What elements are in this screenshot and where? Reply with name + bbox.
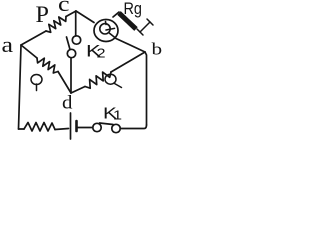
wire battery to key K1	[77, 127, 93, 129]
wire switch K2 to node d	[70, 58, 72, 93]
lead galvanometer to resistor Rg	[113, 12, 119, 17]
label Q right handwritten	[105, 74, 122, 87]
current I symbol bottom tick	[137, 29, 143, 35]
label Rg	[124, 0, 142, 18]
svg-text:2: 2	[97, 47, 106, 61]
rheostat resistor	[24, 123, 55, 132]
resistor P	[46, 17, 66, 33]
wire node a to resistor P	[21, 31, 46, 45]
label K1	[103, 104, 118, 122]
wire left side node a down	[19, 45, 22, 129]
galvanometer circle	[94, 20, 118, 42]
resistor Q left arm	[37, 58, 58, 73]
wire rheostat to battery	[55, 129, 69, 130]
switch K2 top contact	[72, 36, 80, 44]
svg-text:b: b	[152, 40, 163, 59]
svg-text:d: d	[62, 92, 72, 113]
wire node a to resistor Q (left)	[21, 45, 37, 58]
wire resistor P to node c	[66, 11, 76, 17]
wire node d to resistor Q (right)	[71, 87, 85, 94]
wire node c down to switch K2	[75, 11, 77, 36]
label c	[58, 0, 70, 16]
wire key K1 to bottom right corner	[121, 125, 147, 129]
svg-text:Rg: Rg	[124, 0, 142, 18]
svg-text:a: a	[2, 34, 14, 58]
svg-text:1: 1	[113, 109, 122, 123]
current I symbol top tick	[147, 19, 153, 25]
svg-text:c: c	[58, 0, 70, 16]
label K2	[86, 42, 101, 61]
label P	[36, 2, 49, 27]
resistor Q right arm	[85, 72, 111, 88]
battery long plate	[70, 113, 72, 139]
key K1 left contact	[93, 123, 101, 131]
galvanometer G glyph	[100, 22, 116, 39]
wire resistor Q left to node d	[58, 72, 71, 94]
wire bottom left	[19, 128, 25, 130]
label b	[152, 40, 163, 59]
switch K2 bottom contact	[67, 49, 75, 57]
key K1 bar	[100, 123, 114, 125]
resistor Rg thick bar	[119, 13, 136, 29]
svg-text:P: P	[36, 2, 49, 27]
label a	[2, 34, 14, 58]
key K1 right contact	[112, 124, 120, 132]
label Q left handwritten	[31, 75, 42, 91]
wire resistor Q right to node b	[111, 52, 145, 72]
wire right side up to node b	[145, 52, 147, 125]
switch K2 blade	[67, 37, 71, 50]
wire node c to galvanometer	[76, 11, 94, 23]
current I symbol shaft	[140, 22, 150, 32]
wire galvanometer to node b	[116, 39, 145, 53]
label d	[62, 92, 72, 113]
battery short plate	[75, 121, 78, 131]
